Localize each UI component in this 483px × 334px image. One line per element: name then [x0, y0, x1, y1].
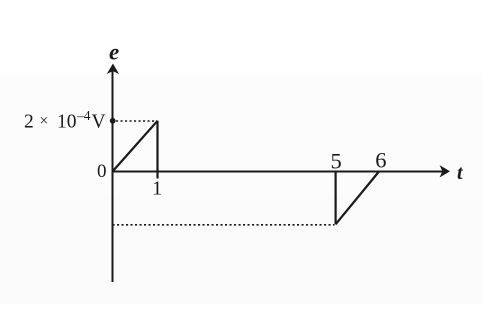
second pulse: ramp up from negative peak to zero at t=6 [336, 172, 379, 225]
svg-text:V: V [92, 111, 106, 132]
x-axis [113, 171, 445, 173]
svg-text:1: 1 [152, 177, 162, 199]
y-axis [112, 69, 114, 282]
svg-text:5: 5 [331, 149, 342, 174]
y-axis arrowhead [108, 65, 118, 73]
svg-text:2: 2 [24, 111, 34, 132]
first pulse: ramp from origin to peak at t=1 [113, 121, 158, 172]
svg-text:6: 6 [375, 148, 386, 173]
svg-text:×: × [40, 113, 49, 130]
svg-text:–4: –4 [76, 108, 91, 123]
dot on y-axis at 2x10^-4 [110, 118, 116, 124]
second pulse: vertical drop at t=5 [335, 172, 337, 225]
dashed line from dot to first peak [116, 120, 158, 122]
svg-text:e: e [109, 40, 119, 65]
background scan shading [0, 74, 483, 304]
svg-text:10: 10 [57, 111, 77, 132]
svg-text:0: 0 [97, 161, 107, 182]
x-axis arrowhead [441, 166, 449, 176]
first pulse: vertical drop at t=1 (with tick below axis) [156, 121, 158, 179]
dashed line at negative peak level [113, 224, 335, 226]
